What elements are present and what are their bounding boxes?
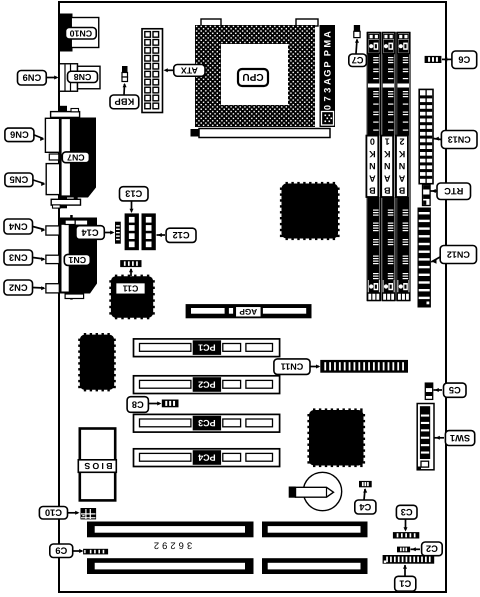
svg-text:C10: C10 (45, 508, 62, 518)
svg-text:CN5: CN5 (10, 175, 29, 185)
svg-text:P: P (323, 50, 333, 56)
svg-text:C12: C12 (173, 230, 190, 240)
svg-text:CN6: CN6 (10, 130, 29, 140)
svg-text:CN7: CN7 (67, 152, 85, 162)
svg-text:CN8: CN8 (74, 72, 92, 82)
svg-text:CN13: CN13 (448, 134, 471, 144)
svg-text:PC2: PC2 (198, 379, 216, 389)
svg-text:C13: C13 (125, 189, 142, 199)
svg-text:N: N (384, 161, 391, 171)
svg-text:C11: C11 (123, 283, 139, 293)
svg-text:CN12: CN12 (447, 249, 470, 259)
svg-text:CN10: CN10 (70, 28, 93, 38)
svg-text:CN3: CN3 (9, 252, 28, 262)
svg-text:C2: C2 (426, 544, 438, 554)
svg-text:C9: C9 (55, 546, 67, 556)
svg-text:C3: C3 (401, 507, 413, 517)
svg-text:B: B (369, 186, 376, 196)
svg-text:C6: C6 (458, 55, 470, 65)
svg-text:36292: 36292 (151, 539, 192, 550)
svg-text:CN2: CN2 (9, 282, 28, 292)
svg-text:BIOS: BIOS (82, 461, 112, 471)
svg-text:N: N (399, 161, 406, 171)
svg-text:ATX: ATX (181, 65, 198, 75)
svg-text:3: 3 (323, 88, 333, 93)
svg-text:B: B (383, 186, 390, 196)
svg-text:CN4: CN4 (8, 221, 27, 231)
svg-text:PC3: PC3 (198, 418, 216, 428)
svg-text:C7: C7 (352, 55, 364, 65)
svg-text:A: A (323, 78, 333, 85)
svg-text:CPU: CPU (242, 71, 263, 82)
svg-text:A: A (323, 31, 333, 38)
svg-text:C8: C8 (132, 399, 144, 409)
svg-text:C1: C1 (399, 579, 411, 589)
svg-text:PC1: PC1 (198, 343, 216, 353)
svg-text:A: A (398, 173, 405, 183)
svg-text:AGP: AGP (239, 307, 257, 316)
svg-text:7: 7 (323, 96, 333, 101)
svg-text:A: A (383, 173, 390, 183)
svg-text:C4: C4 (359, 502, 372, 512)
svg-text:A: A (369, 173, 376, 183)
svg-text:K: K (383, 149, 390, 159)
svg-text:CN11: CN11 (281, 362, 304, 372)
svg-text:SW1: SW1 (450, 433, 470, 443)
svg-text:0: 0 (370, 137, 375, 147)
svg-text:G: G (323, 69, 333, 76)
svg-text:K: K (369, 149, 376, 159)
svg-text:P: P (323, 61, 333, 67)
svg-text:2: 2 (399, 137, 404, 147)
svg-text:M: M (323, 40, 333, 48)
svg-text:K: K (398, 149, 405, 159)
svg-text:CN1: CN1 (68, 255, 86, 265)
svg-text:0: 0 (323, 105, 333, 110)
svg-text:RTC: RTC (444, 186, 463, 196)
svg-text:KBP: KBP (115, 97, 135, 107)
svg-text:B: B (398, 186, 405, 196)
svg-text:CN9: CN9 (23, 73, 42, 83)
svg-text:C14: C14 (81, 227, 99, 237)
svg-text:N: N (369, 161, 376, 171)
svg-text:PC4: PC4 (198, 452, 216, 462)
svg-text:1: 1 (385, 137, 390, 147)
svg-text:C5: C5 (449, 385, 461, 395)
